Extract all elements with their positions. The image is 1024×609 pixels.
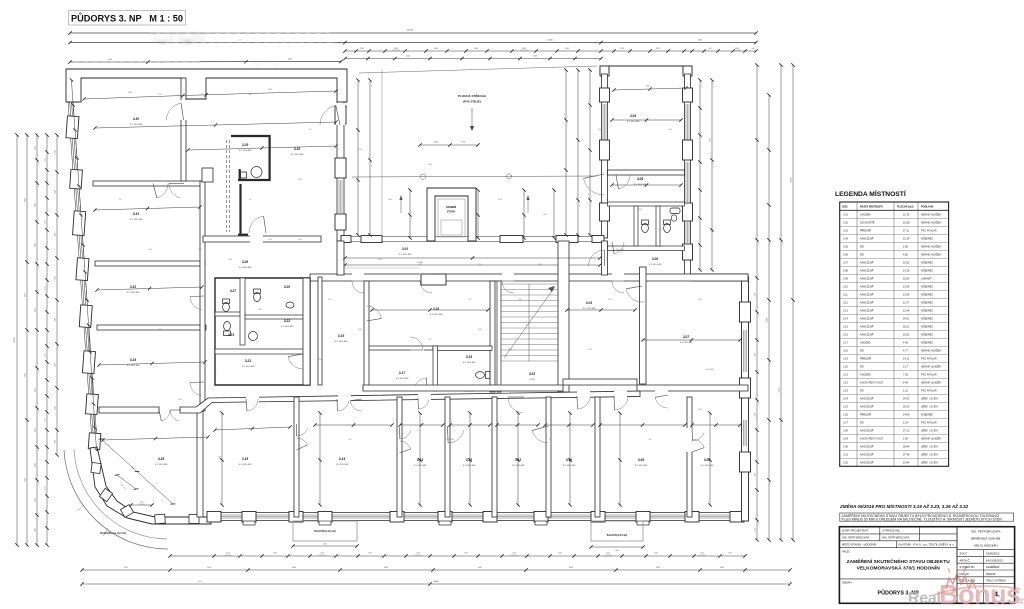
wall: 3.24/3.25: [99, 407, 159, 413]
svg-text:DŘEV. VLYSKY: DŘEV. VLYSKY: [921, 430, 939, 433]
svg-text:2400: 2400: [55, 190, 57, 194]
svg-text:KANCELÁŘ: KANCELÁŘ: [860, 318, 874, 321]
svg-text:(2100 800): (2100 800): [604, 555, 612, 557]
wall: 3.15/3.14: [294, 397, 299, 517]
svg-text:1100: 1100: [226, 553, 230, 555]
wall: west rooms east side: [200, 181, 205, 411]
svg-text:1800: 1800: [394, 48, 398, 50]
door 3.09/3.08: [687, 428, 693, 452]
svg-text:1565: 1565: [45, 418, 47, 422]
svg-text:SCHODIŠTĚ: SCHODIŠTĚ: [860, 222, 875, 225]
svg-text:3.03: 3.03: [586, 301, 592, 305]
svg-text:13.06: 13.06: [903, 286, 910, 289]
left dimension chains: [16, 135, 18, 545]
svg-text:5610: 5610: [25, 373, 27, 377]
svg-text:1100: 1100: [543, 214, 547, 216]
svg-text:PVC POVLAK: PVC POVLAK: [921, 358, 937, 361]
svg-text:3.31: 3.31: [843, 454, 848, 457]
svg-text:900: 900: [659, 229, 662, 231]
svg-text:11.07: 11.07: [903, 302, 910, 305]
wall: 3.19 west: [318, 277, 322, 385]
svg-text:CHODBA: CHODBA: [860, 342, 871, 345]
svg-text:3.18: 3.18: [466, 355, 472, 359]
svg-text:BALKÓN (2,40 m2): BALKÓN (2,40 m2): [314, 530, 335, 533]
svg-text:3.09: 3.09: [843, 278, 848, 281]
svg-text:2400: 2400: [55, 276, 57, 280]
svg-text:(2100 800): (2100 800): [224, 555, 232, 557]
svg-text:S.V. 3340 MM: S.V. 3340 MM: [130, 219, 143, 221]
wall: 3.03/3.07: [640, 267, 647, 384]
door 3.24: [190, 383, 202, 396]
svg-text:S.V. 3300 MM: S.V. 3300 MM: [336, 464, 349, 466]
svg-text:900: 900: [214, 369, 217, 371]
svg-text:▒▂▒ ▒▃▒▒: ▒▂▒ ▒▃▒▒: [152, 32, 206, 44]
svg-text:3.03: 3.03: [843, 230, 848, 233]
svg-text:4.48: 4.48: [903, 382, 908, 385]
svg-text:1100: 1100: [148, 249, 152, 251]
svg-text:3.24: 3.24: [130, 358, 136, 362]
wall: north edge of southeast wing: [692, 274, 748, 281]
svg-text:3.11: 3.11: [515, 458, 521, 462]
svg-text:WC: WC: [860, 254, 864, 257]
svg-text:3.26: 3.26: [843, 414, 848, 417]
svg-text:3.21: 3.21: [843, 374, 848, 377]
svg-text:S.V. 3300 MM: S.V. 3300 MM: [463, 465, 476, 467]
roof mid chain: [420, 144, 478, 146]
svg-text:S.V. 3404 MM: S.V. 3404 MM: [335, 341, 348, 343]
wall: 3.30/3.31: [93, 181, 203, 186]
svg-text:2400: 2400: [698, 299, 702, 301]
svg-text:3.27: 3.27: [230, 289, 236, 293]
svg-text:20040: 20040: [791, 178, 793, 183]
wall: 3.11/3.10: [546, 397, 551, 517]
svg-text:S.V. 3340 MM: S.V. 3340 MM: [399, 254, 412, 256]
svg-text:3.22: 3.22: [284, 319, 290, 323]
svg-text:S.V. 3300 MM: S.V. 3300 MM: [463, 362, 476, 364]
double door 3.25: [161, 410, 170, 421]
svg-text:1565: 1565: [273, 553, 277, 555]
wall: 3.18 north: [433, 346, 492, 351]
svg-text:12.04: 12.04: [903, 310, 910, 313]
svg-text:KANCELÁŘ: KANCELÁŘ: [860, 310, 874, 313]
svg-text:KERAM. DLAŽBA: KERAM. DLAŽBA: [921, 214, 941, 217]
svg-text:22.60: 22.60: [903, 278, 910, 281]
wall: west block east side: [337, 102, 344, 241]
svg-text:1100: 1100: [35, 388, 37, 392]
svg-text:BRNĚNSKÁ 4104/14B: BRNĚNSKÁ 4104/14B: [971, 536, 1000, 541]
svg-text:KANCELÁŘ: KANCELÁŘ: [860, 286, 874, 289]
wall: 3.28/3.26: [203, 236, 321, 242]
WC fixture 3.05: [670, 208, 680, 214]
svg-text:ZMĚNA 05/2016 PRO MÍSTNOSTI 3.: ZMĚNA 05/2016 PRO MÍSTNOSTI 3.19 AŽ 3.23…: [839, 502, 969, 509]
svg-text:3.02: 3.02: [843, 222, 848, 225]
svg-text:1565: 1565: [638, 209, 642, 211]
chain below top wall: [84, 91, 336, 99]
svg-text:S.V. 3300 MM: S.V. 3300 MM: [512, 465, 525, 467]
svg-text:1100: 1100: [35, 308, 37, 312]
svg-text:2400: 2400: [538, 264, 542, 266]
door 3.09a: [615, 398, 628, 410]
svg-text:1095: 1095: [360, 48, 364, 50]
svg-text:3.10: 3.10: [843, 286, 848, 289]
svg-text:KOBEREC: KOBEREC: [921, 262, 933, 265]
svg-text:2400: 2400: [55, 150, 57, 154]
svg-text:Bonus: Bonus: [939, 580, 1021, 609]
svg-text:2046: 2046: [298, 179, 302, 181]
svg-text:3.29: 3.29: [242, 143, 248, 147]
svg-text:10 1: 10 1: [238, 39, 242, 41]
bottom dimension chains: [170, 555, 745, 557]
svg-text:2830: 2830: [656, 567, 660, 569]
svg-text:14.25: 14.25: [903, 270, 910, 273]
partition 3.26 west: [226, 140, 228, 232]
svg-text:1565: 1565: [728, 553, 732, 555]
svg-text:4497: 4497: [198, 581, 202, 583]
svg-text:3.19: 3.19: [338, 334, 344, 338]
svg-text:3.32: 3.32: [130, 285, 136, 289]
svg-text:900: 900: [249, 94, 252, 96]
svg-text:1100: 1100: [700, 553, 704, 555]
svg-text:3.10: 3.10: [566, 458, 572, 462]
svg-text:WC: WC: [860, 422, 864, 425]
svg-text:64-01/06/2013: 64-01/06/2013: [986, 558, 1003, 562]
wall: staircase east: [558, 241, 569, 392]
svg-text:KERAM. DLAŽBA: KERAM. DLAŽBA: [921, 366, 941, 369]
svg-text:PLUS MÍNUS 50 MM S OHLEDEM NA: PLUS MÍNUS 50 MM S OHLEDEM NA SKUTEČNÉ T…: [842, 516, 1003, 521]
svg-text:(2100 800): (2100 800): [318, 555, 326, 557]
svg-text:ING. PETR BROCHTA: ING. PETR BROCHTA: [842, 536, 869, 540]
door 3.13/3.12 mid: [446, 426, 450, 444]
svg-text:1565: 1565: [45, 486, 47, 490]
svg-text:1565: 1565: [45, 353, 47, 357]
wall: 3.31/3.32: [95, 261, 205, 266]
svg-text:S.V. 3300 MM: S.V. 3300 MM: [430, 314, 443, 316]
wall: south of middle block: [363, 385, 563, 391]
svg-text:2400: 2400: [698, 409, 702, 411]
wall: 3.32/3.24: [97, 325, 206, 330]
svg-text:KUCHYŇSKÝ KOUT: KUCHYŇSKÝ KOUT: [860, 382, 884, 385]
wall: corridor west end: [337, 241, 344, 275]
svg-text:1800: 1800: [735, 48, 739, 50]
svg-text:4,750: 4,750: [220, 456, 222, 460]
svg-text:KANCELÁŘ: KANCELÁŘ: [860, 430, 874, 433]
svg-text:KANCELÁŘ: KANCELÁŘ: [860, 238, 874, 241]
svg-text:S.V. 3300 MM: S.V. 3300 MM: [239, 464, 252, 466]
svg-text:MÍSTO STAVBY : HODONÍN: MÍSTO STAVBY : HODONÍN: [842, 542, 876, 546]
svg-text:OZN.: OZN.: [842, 206, 848, 209]
svg-text:AKCE :: AKCE :: [842, 550, 851, 554]
balcony south 1: [293, 521, 357, 541]
svg-text:PVC POVLAK: PVC POVLAK: [921, 374, 937, 377]
door 3.13 top: [418, 400, 429, 410]
svg-text:4650: 4650: [698, 39, 702, 41]
svg-text:PVC POVLAK: PVC POVLAK: [921, 230, 937, 233]
door 3.32: [190, 297, 202, 310]
svg-text:3.25: 3.25: [158, 457, 164, 461]
svg-text:3.13: 3.13: [843, 310, 848, 313]
svg-text:Real: Real: [908, 590, 941, 607]
svg-text:KANCELÁŘ: KANCELÁŘ: [860, 270, 874, 273]
pier on west rooms wall: [202, 168, 213, 182]
svg-text:2946: 2946: [434, 142, 438, 144]
svg-text:3.01: 3.01: [843, 214, 848, 217]
svg-text:KANCELÁŘ: KANCELÁŘ: [860, 334, 874, 337]
svg-text:1100: 1100: [248, 429, 252, 431]
svg-text:1565: 1565: [654, 553, 658, 555]
svg-text:2145: 2145: [207, 567, 211, 569]
svg-text:4700: 4700: [498, 199, 502, 201]
svg-text:ING. PETR BROCHTA: ING. PETR BROCHTA: [971, 530, 1000, 534]
svg-text:OBSAH :: OBSAH :: [842, 581, 853, 585]
svg-text:2100 (800): 2100 (800): [706, 369, 715, 371]
svg-text:DŘEV. VLYSKY: DŘEV. VLYSKY: [921, 406, 939, 409]
svg-text:LAMINÁT: LAMINÁT: [921, 278, 932, 281]
svg-text:8520: 8520: [25, 198, 27, 202]
svg-text:3.04: 3.04: [630, 114, 636, 118]
svg-text:3.07: 3.07: [843, 262, 848, 265]
svg-text:3.15: 3.15: [242, 457, 248, 461]
svg-text:4654: 4654: [384, 567, 388, 569]
svg-text:2400: 2400: [720, 567, 724, 569]
door 3.06: [614, 242, 624, 254]
svg-text:1565: 1565: [198, 249, 202, 251]
svg-text:1565: 1565: [418, 264, 422, 266]
svg-text:S.V. 3300 MM: S.V. 3300 MM: [627, 121, 640, 123]
svg-text:(PVC FÓLIE): (PVC FÓLIE): [463, 99, 481, 104]
door 3.16: [367, 306, 382, 318]
svg-text:2400: 2400: [323, 544, 327, 546]
svg-text:3.18: 3.18: [843, 350, 848, 353]
svg-text:LEGENDA MÍSTNOSTÍ: LEGENDA MÍSTNOSTÍ: [835, 189, 906, 198]
WC 3.18 fixtures: [464, 372, 490, 392]
svg-text:2400: 2400: [55, 233, 57, 237]
svg-text:20.52: 20.52: [902, 406, 910, 409]
svg-text:2400: 2400: [55, 318, 57, 322]
wall: 3.13/3.12: [445, 397, 450, 517]
svg-text:3.23: 3.23: [843, 390, 848, 393]
svg-text:05/2016: 05/2016: [986, 572, 996, 576]
svg-text:3920: 3920: [656, 48, 660, 50]
svg-text:3.05: 3.05: [843, 246, 848, 249]
svg-text:3.23: 3.23: [228, 333, 234, 337]
tolerance note box: [840, 513, 1014, 521]
svg-text:KOBEREC: KOBEREC: [921, 326, 933, 329]
svg-text:(2100 800): (2100 800): [520, 50, 528, 52]
right dimension chains: [756, 65, 758, 540]
svg-text:3.02: 3.02: [529, 372, 535, 376]
legend table: [840, 202, 949, 466]
door 3.14/3.13 mid (double): [398, 427, 402, 453]
svg-text:2400: 2400: [55, 363, 57, 367]
svg-text:15.75: 15.75: [903, 214, 910, 217]
svg-text:20950: 20950: [14, 336, 16, 342]
svg-text:4354: 4354: [434, 48, 438, 50]
wall: 3.09/3.08: [687, 397, 692, 517]
svg-text:3.05: 3.05: [637, 177, 643, 181]
svg-text:940: 940: [752, 48, 755, 50]
svg-text:KANCELÁŘ: KANCELÁŘ: [860, 406, 874, 409]
svg-text:4700: 4700: [318, 359, 322, 361]
svg-text:.cz: .cz: [1012, 596, 1024, 606]
svg-text:24.01: 24.01: [903, 318, 910, 321]
svg-text:2400: 2400: [388, 199, 392, 201]
svg-text:3.07: 3.07: [683, 335, 689, 339]
svg-text:11380: 11380: [767, 318, 769, 323]
svg-text:1100: 1100: [158, 329, 162, 331]
svg-text:750: 750: [429, 339, 432, 341]
svg-text:CHODBA: CHODBA: [860, 374, 871, 377]
svg-text:4.46: 4.46: [903, 342, 908, 345]
wall: 3.30/3.28: [181, 78, 186, 181]
svg-text:14.89: 14.89: [903, 414, 910, 417]
svg-text:1565: 1565: [368, 553, 372, 555]
svg-text:PLOCHA (m2): PLOCHA (m2): [897, 206, 914, 209]
svg-text:PŘEDSÍŇ: PŘEDSÍŇ: [860, 414, 871, 417]
wall: south exterior with windows: [211, 512, 748, 514]
svg-text:KERAM. DLAŽBA: KERAM. DLAŽBA: [921, 246, 941, 249]
wall: top exterior west block: [66, 69, 347, 102]
svg-text:S.V. 3300 MM: S.V. 3300 MM: [155, 464, 168, 466]
svg-text:3.20: 3.20: [284, 285, 290, 289]
chains flanking NE block: [699, 80, 701, 270]
corridor 3.01 south wall: [310, 274, 748, 281]
svg-text:(2100 800): (2100 800): [510, 555, 518, 557]
svg-text:2100 (800): 2100 (800): [446, 439, 455, 441]
wall: 3.14/3.13: [397, 397, 402, 517]
svg-text:S.V. 3340 MM: S.V. 3340 MM: [127, 292, 140, 294]
svg-text:1100: 1100: [268, 239, 272, 241]
svg-text:750: 750: [249, 199, 252, 201]
chain in 3.04: [614, 88, 686, 90]
wall: NE block east side: [685, 74, 691, 277]
svg-text:6150: 6150: [710, 138, 712, 142]
svg-text:3.32: 3.32: [843, 462, 848, 465]
wall: 3.27/3.23: [215, 312, 245, 316]
WC fixtures: [223, 289, 294, 341]
svg-text:2400: 2400: [428, 164, 432, 166]
svg-text:KERAM. DLAŽBA: KERAM. DLAŽBA: [921, 382, 941, 385]
svg-text:3.15: 3.15: [843, 326, 848, 329]
kitchen 3.29 walls: [231, 136, 270, 181]
svg-text:KANCELÁŘ: KANCELÁŘ: [860, 294, 874, 297]
svg-text:DŘEV. VLYSKY: DŘEV. VLYSKY: [921, 462, 939, 465]
svg-text:3.08: 3.08: [843, 270, 848, 273]
double door 3.14 top: [337, 401, 349, 411]
svg-text:ING. PETR BROCHTA: ING. PETR BROCHTA: [882, 536, 909, 540]
svg-text:3.25: 3.25: [843, 406, 848, 409]
svg-text:(2100 800): (2100 800): [698, 555, 706, 557]
svg-text:2046: 2046: [478, 329, 482, 331]
svg-text:1100: 1100: [755, 413, 757, 417]
svg-text:900: 900: [649, 439, 652, 441]
svg-text:750: 750: [279, 349, 282, 351]
roof line with column circles: [352, 176, 597, 177]
svg-text:1150: 1150: [620, 48, 624, 50]
svg-text:4360: 4360: [268, 89, 272, 91]
wall: 3.27-3.23 east: [240, 278, 245, 345]
svg-text:KOBEREC: KOBEREC: [921, 270, 933, 273]
svg-text:S.V. 3400 MM: S.V. 3400 MM: [701, 465, 714, 467]
watermark RealBonus.cz: [908, 565, 1024, 609]
svg-text:1100: 1100: [35, 428, 37, 432]
svg-text:NÁZEV MÍSTNOSTI: NÁZEV MÍSTNOSTI: [860, 206, 883, 209]
svg-text:3.30: 3.30: [133, 117, 139, 121]
wall: 3.16 east: [490, 281, 495, 392]
svg-text:3.06: 3.06: [843, 254, 848, 257]
svg-text:DŘEV. VLYSKY: DŘEV. VLYSKY: [921, 446, 939, 449]
svg-text:2.17: 2.17: [902, 366, 908, 369]
svg-text:S.V. 2400 MM: S.V. 2400 MM: [281, 326, 294, 328]
svg-text:3.01: 3.01: [402, 247, 408, 251]
door to 3.31 (double): [157, 184, 168, 199]
svg-text:14.11: 14.11: [903, 358, 910, 361]
svg-text:2046: 2046: [406, 56, 410, 58]
svg-text:3.30: 3.30: [843, 446, 848, 449]
svg-text:1565: 1565: [178, 399, 182, 401]
svg-text:KOBEREC: KOBEREC: [921, 310, 933, 313]
door 3.09b: [655, 397, 667, 408]
WC fixtures 3.06: [642, 220, 671, 233]
wall: between 3.04 and 3.05: [608, 170, 685, 175]
svg-text:28.84: 28.84: [902, 446, 910, 449]
svg-text:23.52: 23.52: [903, 262, 910, 265]
svg-text:2400: 2400: [378, 259, 382, 261]
svg-text:S.V. 2400 MM: S.V. 2400 MM: [242, 366, 255, 368]
svg-text:1565: 1565: [298, 239, 302, 241]
svg-text:2400: 2400: [358, 329, 362, 331]
svg-text:PVC POVLAK: PVC POVLAK: [921, 390, 937, 393]
wall: NE block west side: [602, 74, 608, 238]
svg-text:750: 750: [309, 129, 312, 131]
svg-text:1100: 1100: [35, 146, 37, 150]
svg-text:KANCELÁŘ: KANCELÁŘ: [860, 262, 874, 265]
svg-text:KANCELÁŘ: KANCELÁŘ: [860, 446, 874, 449]
corridor 3.01 north glazed wall: [341, 236, 604, 238]
svg-text:15.28: 15.28: [903, 222, 910, 225]
staircase 3.02 treads: [500, 283, 558, 285]
drawing title: [69, 11, 186, 26]
svg-text:1100: 1100: [35, 243, 37, 247]
svg-text:1100: 1100: [35, 463, 37, 467]
wall: east exterior: [742, 277, 749, 521]
svg-text:1100: 1100: [416, 553, 420, 555]
svg-text:S.V. 3300 MM: S.V. 3300 MM: [291, 154, 304, 156]
svg-text:KUCHYŇSKÝ KOUT: KUCHYŇSKÝ KOUT: [860, 438, 884, 441]
svg-text:3.16: 3.16: [843, 334, 848, 337]
door 3.07: [626, 289, 645, 302]
svg-text:1100: 1100: [35, 498, 37, 502]
svg-text:S.V. 3300 MM: S.V. 3300 MM: [396, 378, 409, 380]
svg-text:VYPRACOVAL: VYPRACOVAL: [882, 529, 901, 533]
svg-text:1430: 1430: [565, 48, 569, 50]
svg-text:(2100 800): (2100 800): [392, 50, 400, 52]
svg-text:1600: 1600: [533, 56, 537, 58]
svg-text:KERAM. DLAŽBA: KERAM. DLAŽBA: [921, 254, 941, 257]
svg-text:3.26: 3.26: [242, 260, 248, 264]
svg-text:3.14: 3.14: [843, 318, 848, 321]
left inner chain (tilted): [72, 80, 97, 450]
svg-text:3.08: 3.08: [704, 458, 710, 462]
svg-text:DŘEV. VLYSKY: DŘEV. VLYSKY: [921, 398, 939, 401]
svg-text:4.82: 4.82: [903, 254, 908, 257]
svg-text:S.V. 2100 MM: S.V. 2100 MM: [583, 308, 596, 310]
svg-text:750: 750: [119, 199, 122, 201]
small vertical chains near elevator: [477, 190, 479, 238]
svg-text:3.28: 3.28: [294, 147, 300, 151]
svg-text:DŘEV. VLYSKY: DŘEV. VLYSKY: [921, 454, 939, 457]
svg-text:1100: 1100: [512, 553, 516, 555]
svg-text:1100: 1100: [755, 528, 757, 532]
